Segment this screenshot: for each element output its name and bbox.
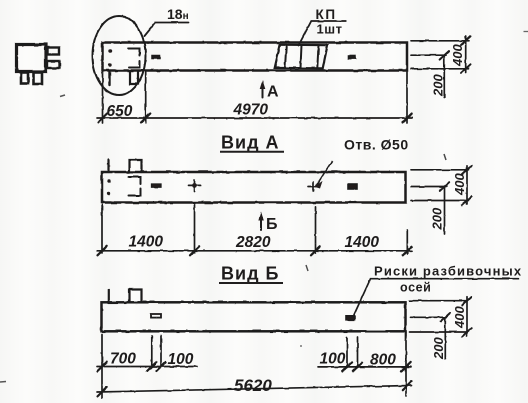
view A tick left [98, 246, 107, 255]
svg-text:Вид А: Вид А [221, 133, 280, 153]
hole leader [316, 161, 332, 186]
top view bottom dim line [97, 117, 412, 119]
top view right end ext line [406, 72, 408, 123]
section icon: right tab 2 [47, 61, 60, 68]
view B right ext mid [411, 316, 447, 318]
svg-text:2820: 2820 [235, 234, 271, 251]
svg-text:Отв. Ø50: Отв. Ø50 [344, 137, 409, 153]
svg-text:650: 650 [107, 103, 133, 120]
view A dot 1 [107, 179, 110, 182]
view B ext below 800 [357, 337, 359, 368]
top view: dot 1 [108, 49, 111, 52]
view A bottom dim line [97, 250, 412, 252]
label 18н leader bar [145, 23, 190, 37]
view B left tick above beam [108, 290, 110, 303]
view B dim line 700-100 [97, 366, 197, 368]
top view: small embed bar [152, 56, 160, 59]
top view right ext line top [411, 40, 469, 42]
section icon: bottom leg 1 [21, 73, 28, 84]
stray scan speck 4 [0, 381, 6, 384]
view B right ext bottom [410, 331, 467, 333]
svg-text:осей: осей [400, 281, 431, 295]
riski label underline and leader [353, 279, 518, 317]
hole mark [308, 182, 319, 191]
svg-text:А: А [267, 84, 279, 101]
view B dim line 100-800 [318, 366, 411, 368]
section icon: right tab 1 [48, 48, 60, 55]
svg-text:700: 700 [110, 351, 136, 368]
svg-text:1400: 1400 [345, 234, 380, 251]
view A left tick above beam [107, 160, 109, 173]
view B ext below left [101, 335, 103, 399]
view B 400 dim line [466, 297, 468, 336]
top view: dashed embed top corner [129, 49, 140, 56]
KP plate divider 1 [285, 45, 286, 68]
view A ext below: cross [194, 205, 196, 254]
stray scan speck 5 [300, 345, 302, 347]
view B axis riska mark [346, 316, 355, 320]
top view 400 tick bottom [461, 64, 471, 73]
svg-text:400: 400 [452, 173, 467, 196]
svg-text:400: 400 [450, 44, 465, 67]
tick 4970 right [403, 114, 412, 123]
svg-text:1шт: 1шт [317, 22, 343, 37]
section icon: bottom leg 2 [34, 73, 43, 85]
top view beam outline [103, 43, 408, 71]
KP label fraction bar and leader [299, 21, 346, 46]
top view right ext line bottom [411, 68, 469, 70]
tick 5620 left [98, 387, 107, 396]
view A right ext top [411, 169, 469, 171]
svg-text:800: 800 [370, 352, 396, 369]
top view 200 dim line [443, 55, 445, 97]
view A ext below: right [406, 230, 408, 254]
view B loop square above beam [130, 290, 142, 303]
tick 700 left [98, 362, 107, 371]
svg-text:100: 100 [320, 351, 346, 368]
tick 100L [156, 362, 165, 371]
view A dot 2 [107, 192, 110, 195]
view B 400 tick top [462, 296, 471, 305]
top view: small embed bar 2 [349, 56, 356, 59]
view A tick 3 [311, 246, 320, 255]
view B ext below 100R [346, 337, 348, 368]
view A tick 2 [190, 246, 199, 255]
view A ext below: hole [315, 207, 317, 253]
stray scan speck 1 [60, 95, 65, 97]
tick 700 right [147, 362, 156, 371]
tick 5620 right [402, 381, 411, 390]
KP plate parallelogram [275, 45, 328, 69]
view A loop square above beam [130, 160, 142, 172]
view B 200 dim line [444, 317, 446, 359]
svg-text:200: 200 [430, 207, 445, 230]
view A embed bar [152, 184, 162, 187]
stray scan speck 6 [306, 265, 308, 271]
top view right ext line mid [411, 54, 446, 56]
view B 400 tick bottom [462, 328, 471, 337]
view A dashed embed bottom [129, 189, 141, 196]
svg-text:Риски разбивочных: Риски разбивочных [374, 264, 522, 279]
svg-text:1400: 1400 [129, 234, 164, 251]
svg-text:100: 100 [168, 351, 194, 368]
view A 400 tick top [462, 166, 471, 175]
top view: dashed embed bottom corner [129, 61, 140, 68]
arrow A (view direction) [262, 84, 264, 98]
tick 100R right [353, 362, 362, 371]
svg-text:КП: КП [316, 7, 337, 22]
detail ellipse [93, 16, 146, 95]
view B ext below 700 [151, 336, 153, 367]
tick 650 right [141, 114, 150, 123]
svg-text:5620: 5620 [234, 376, 272, 395]
top view: dot 2 [108, 63, 111, 66]
view B overall dim line 5620 [97, 386, 412, 393]
view B beam outline [102, 302, 406, 331]
view B ext below right [405, 332, 407, 396]
view B 200 tick [441, 313, 450, 322]
view A 200 tick [440, 182, 449, 191]
top view: right leg below beam [130, 72, 138, 84]
view A 400 dim line [466, 166, 468, 205]
top view 200 tick top [440, 51, 449, 60]
tick 650 left [98, 114, 107, 123]
view A right ext mid [411, 186, 447, 188]
top view 400 dim line [465, 37, 467, 73]
svg-text:4970: 4970 [233, 102, 269, 119]
svg-text:Вид Б: Вид Б [221, 264, 279, 284]
svg-text:400: 400 [452, 306, 467, 329]
top view 650 right ext line [145, 72, 147, 123]
view B right ext top [410, 300, 467, 302]
svg-text:200: 200 [431, 337, 446, 360]
view A right ext bottom [411, 200, 469, 202]
view A dashed embed top [129, 177, 141, 184]
view B embed bar [151, 314, 161, 318]
tick 800 right [401, 362, 410, 371]
view A tick right [403, 246, 412, 255]
view A embed bar 2 [349, 184, 358, 189]
view A ext below: left [101, 205, 103, 254]
top view: left leg below beam [108, 72, 110, 85]
section icon: main square [17, 45, 47, 72]
arrow B (view direction) [260, 216, 262, 230]
view A axis cross mark [188, 180, 201, 192]
svg-text:18н: 18н [167, 6, 189, 22]
view A beam outline [102, 172, 406, 203]
view B ext below 100L [160, 336, 162, 367]
view A 400 tick bottom [462, 196, 471, 205]
top view 400 tick top [461, 36, 471, 45]
KP plate divider 3 [317, 45, 318, 68]
stray scan speck 2 [444, 154, 446, 160]
tick 100R left [342, 362, 351, 371]
svg-text:200: 200 [431, 74, 446, 97]
view A 200 dim line [444, 187, 446, 235]
KP plate divider 2 [301, 45, 302, 68]
top view 650 left ext line [102, 72, 104, 123]
svg-text:Б: Б [266, 216, 278, 233]
stray scan speck 3 [524, 31, 528, 33]
